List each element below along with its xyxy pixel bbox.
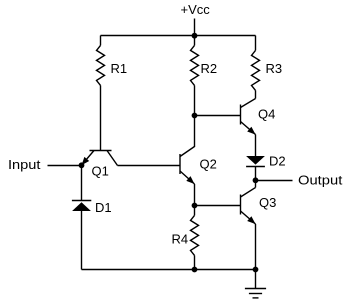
wire D2 to output node (255, 167, 257, 181)
wire D1 to bottom rail (81, 211, 83, 270)
svg-text:+Vcc: +Vcc (181, 2, 211, 17)
node Q4 base branch (192, 113, 198, 119)
svg-text:R4: R4 (172, 232, 189, 247)
svg-text:Q3: Q3 (259, 195, 276, 210)
svg-text:D2: D2 (269, 154, 286, 169)
resistor R4 (191, 215, 199, 255)
transistor Q3 (241, 188, 256, 225)
diode D2 (246, 156, 265, 167)
svg-text:R3: R3 (266, 61, 283, 76)
wire R4 top lead (194, 206, 196, 216)
resistor R2 (191, 45, 199, 85)
wire R2 top lead (194, 36, 196, 46)
svg-text:R2: R2 (201, 61, 218, 76)
wire node to Q4 base (195, 115, 241, 117)
node output junction (253, 177, 259, 183)
diode D1 (72, 201, 91, 212)
wire R3 bottom to Q4 collector (255, 90, 257, 98)
wire node to Q3 base (195, 205, 241, 207)
wire R1 top lead (100, 36, 102, 46)
wire top Vcc rail (101, 35, 256, 37)
wire Vcc lead (194, 19, 196, 36)
svg-text:Output: Output (298, 173, 343, 188)
wire output lead (256, 180, 293, 182)
wire R3 top lead (255, 36, 257, 51)
transistor Q4 (241, 99, 256, 135)
node input junction (79, 162, 85, 168)
svg-text:Input: Input (8, 157, 41, 172)
wire R4 bottom lead (194, 255, 196, 269)
svg-text:Q2: Q2 (200, 157, 217, 172)
svg-text:Q4: Q4 (258, 107, 275, 122)
wire Input lead (48, 165, 82, 167)
wire Q2 emitter down (194, 184, 196, 206)
wire Q4 emitter to D2 (255, 135, 257, 157)
ground (245, 270, 266, 298)
transistor Q2 (180, 147, 195, 185)
wire input node to D1 (81, 165, 83, 200)
wire bottom rail (82, 269, 256, 271)
transistor Q1 (82, 151, 118, 166)
wire R1 bottom to Q1 base (100, 85, 102, 150)
resistor R3 (252, 50, 260, 90)
wire output node to Q3 collector (255, 180, 257, 187)
resistor R1 (97, 45, 105, 85)
wire Q1 collector to Q2 base (118, 165, 181, 167)
svg-text:D1: D1 (95, 200, 112, 215)
node Vcc rail junction (192, 33, 198, 39)
node bottom rail R4 junction (192, 267, 198, 273)
svg-text:R1: R1 (111, 61, 128, 76)
node Q2 emitter junction (192, 203, 198, 209)
svg-text:Q1: Q1 (92, 164, 109, 179)
wire R2 bottom to Q2 collector (194, 85, 196, 147)
wire Q3 emitter to bottom rail (255, 224, 257, 270)
node bottom rail ground junction (253, 267, 259, 273)
